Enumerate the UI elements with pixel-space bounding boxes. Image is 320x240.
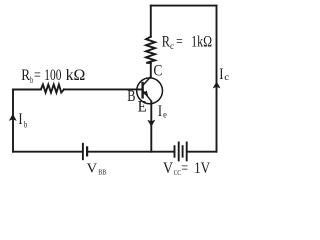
- svg-text:1V: 1V: [194, 160, 211, 177]
- svg-text:C: C: [153, 62, 162, 79]
- resistor R_C zigzag: [146, 37, 155, 63]
- svg-text:c: c: [224, 73, 229, 83]
- battery V_CC short plate 2: [182, 146, 184, 157]
- svg-text:B: B: [127, 88, 135, 105]
- svg-text:CC: CC: [174, 169, 182, 177]
- svg-text:100: 100: [44, 67, 61, 84]
- svg-text:E: E: [138, 99, 147, 116]
- svg-text:=: =: [34, 67, 41, 84]
- battery V_CC long plate 1: [178, 143, 180, 161]
- battery V_CC short plate 1: [174, 146, 176, 157]
- wire emitter vertical: [150, 101, 152, 151]
- transistor Q1 collector lead: [143, 77, 151, 86]
- svg-text:I: I: [18, 111, 22, 128]
- svg-text:b: b: [24, 120, 28, 130]
- svg-text:b: b: [30, 76, 33, 86]
- svg-text:I: I: [219, 66, 223, 83]
- svg-text:V: V: [87, 162, 98, 177]
- current arrow I_e head: [147, 120, 155, 127]
- current arrow I_b head: [9, 114, 17, 121]
- svg-text:V: V: [163, 160, 174, 177]
- current arrow I_c head: [213, 81, 221, 88]
- wire bottom segment 2: [88, 151, 173, 153]
- wire base right segment: [64, 88, 143, 90]
- transistor Q1 body circle: [137, 78, 163, 104]
- resistor R_b zigzag: [41, 85, 64, 93]
- wire base left segment: [13, 89, 41, 91]
- transistor Q1 emitter arrowhead: [143, 90, 148, 96]
- svg-text:BB: BB: [98, 169, 106, 177]
- battery V_CC long plate 2: [186, 143, 188, 161]
- wire bottom segment 1: [13, 151, 81, 153]
- wire left vertical: [12, 90, 14, 152]
- battery V_BB short plate: [86, 147, 88, 155]
- transistor Q1 base bar: [141, 83, 143, 97]
- battery V_BB long plate: [82, 144, 84, 159]
- wire top horizontal: [151, 5, 217, 7]
- svg-text:=: =: [181, 160, 188, 177]
- svg-text:=: =: [176, 33, 183, 50]
- svg-text:R: R: [21, 67, 30, 84]
- svg-text:e: e: [163, 110, 167, 120]
- transistor Q1 emitter lead: [143, 91, 152, 102]
- wire right vertical: [216, 6, 218, 152]
- svg-text:1kΩ: 1kΩ: [191, 33, 212, 50]
- svg-text:c: c: [170, 42, 174, 52]
- svg-text:kΩ: kΩ: [66, 67, 86, 84]
- wire collector bottom segment: [150, 63, 152, 77]
- svg-text:I: I: [158, 103, 162, 120]
- svg-text:R: R: [162, 34, 170, 51]
- wire bottom segment 3: [188, 151, 217, 153]
- wire collector top segment: [150, 6, 152, 37]
